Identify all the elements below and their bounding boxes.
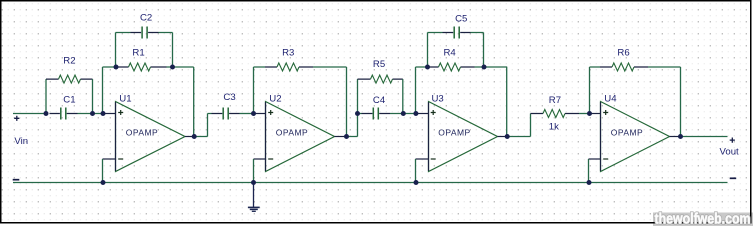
node rail U1	[101, 180, 106, 185]
wire U3 minus riser to ground rail	[415, 159, 417, 183]
svg-text:C5: C5	[455, 14, 467, 25]
wire R5/C4 right loop vertical	[402, 79, 404, 113]
svg-text:R6: R6	[617, 47, 629, 58]
wire R1 feedback top runs	[103, 67, 194, 137]
op-amp U2	[266, 102, 335, 172]
wire C5 loop right vertical	[471, 33, 484, 68]
resistor R4	[428, 63, 475, 71]
node R2 right	[90, 111, 95, 116]
resistor R7	[531, 110, 580, 118]
wire C4 segs	[358, 113, 416, 115]
terminal Vout plus	[730, 138, 735, 143]
pin - input stub U4	[589, 158, 601, 160]
wire U2 minus riser to ground rail	[253, 159, 255, 183]
node input C1 left	[44, 111, 49, 116]
pin + input stub U1	[103, 113, 116, 115]
node C4 right	[401, 111, 406, 116]
pin - input stub U1	[103, 158, 116, 160]
capacitor C5	[443, 27, 471, 39]
wire U4 output to Vout terminal	[681, 136, 728, 138]
svg-text:C2: C2	[140, 12, 152, 23]
node rail ground	[251, 180, 256, 185]
node rail U3	[414, 180, 419, 185]
svg-text:R2: R2	[63, 56, 75, 67]
pin - input stub U3	[416, 158, 429, 160]
wire C1 to node	[78, 113, 104, 115]
svg-text:R7: R7	[549, 95, 561, 106]
wire input line from Vin terminal	[13, 113, 46, 115]
pin U4 output stub	[670, 136, 681, 138]
svg-text:U4: U4	[604, 94, 617, 105]
wire ground rail	[13, 182, 728, 184]
wire C3 to U2 input node	[240, 113, 254, 115]
capacitor C2	[131, 27, 159, 39]
svg-text:OPAMP: OPAMP	[276, 127, 308, 137]
svg-text:C4: C4	[373, 95, 386, 106]
watermark band	[653, 213, 753, 227]
pin + input stub U3	[416, 113, 429, 115]
capacitor C4	[362, 108, 391, 120]
node R1 right	[170, 65, 175, 70]
pin U2 output stub	[335, 136, 347, 138]
resistor R1	[116, 63, 167, 71]
svg-text:C3: C3	[223, 92, 235, 103]
wire C5 loop left vertical	[428, 33, 443, 68]
wire U4 minus riser to ground rail	[588, 159, 590, 183]
pin + input stub U2	[254, 113, 266, 115]
node R4 right	[482, 65, 487, 70]
wire R3 feedback loop	[254, 67, 347, 137]
node U1 output	[192, 134, 197, 139]
svg-text:C1: C1	[63, 94, 75, 105]
resistor R2	[46, 75, 93, 83]
op-amp U3	[429, 102, 498, 172]
resistor R3	[265, 63, 313, 71]
svg-text:R3: R3	[282, 47, 294, 58]
wire U2 output to R5/C4	[347, 114, 358, 137]
node U1 plus	[101, 111, 106, 116]
node U4 plus	[587, 111, 592, 116]
svg-text:Vout: Vout	[720, 147, 740, 158]
node U4 output	[678, 134, 683, 139]
svg-text:OPAMP: OPAMP	[611, 127, 643, 137]
op-amp U1	[116, 102, 186, 172]
node U3 output	[505, 134, 510, 139]
node R1 left	[114, 65, 119, 70]
pin + input stub U4	[590, 113, 601, 115]
node C4 left	[355, 111, 360, 116]
terminal Vout minus	[730, 177, 737, 179]
terminal Vin minus	[13, 179, 20, 181]
svg-text:Vin: Vin	[14, 136, 28, 147]
wire R7 to U4 node	[579, 113, 590, 115]
svg-text:R1: R1	[132, 48, 144, 59]
node rail U4	[587, 180, 592, 185]
svg-text:U3: U3	[432, 94, 444, 105]
pin U3 output stub	[498, 136, 508, 138]
capacitor C1	[50, 108, 78, 120]
wire U1 minus riser to ground rail	[102, 159, 104, 183]
node U2 output	[344, 134, 349, 139]
resistor R5	[358, 75, 403, 83]
pin U1 output stub	[185, 136, 194, 138]
pin - input stub U2	[254, 158, 266, 160]
wire R4 feedback top runs	[416, 67, 508, 137]
resistor R6	[600, 63, 648, 71]
wire U3 output to R7	[507, 114, 530, 137]
wire U1 output to C3	[194, 114, 211, 137]
svg-text:U1: U1	[119, 94, 131, 105]
wire R6 feedback loop	[590, 67, 681, 137]
svg-text:OPAMP: OPAMP	[438, 127, 470, 137]
svg-text:OPAMP: OPAMP	[126, 127, 158, 137]
op-amp U4	[601, 102, 670, 172]
wire R5/C4 left loop vertical	[357, 79, 359, 113]
node U2 plus	[251, 111, 256, 116]
wire R2/C1 left loop vertical	[45, 79, 47, 113]
wire C2 loop right vertical	[159, 33, 173, 68]
svg-text:R5: R5	[373, 59, 385, 70]
svg-text:R4: R4	[444, 47, 457, 58]
svg-text:thewolfweb.com: thewolfweb.com	[655, 211, 751, 226]
wire riser U3 node to R4 line	[415, 67, 417, 114]
wire riser node to R1 line	[102, 67, 104, 114]
ground	[248, 183, 260, 212]
svg-text:U2: U2	[269, 94, 281, 105]
node R4 left	[425, 65, 430, 70]
svg-text:1k: 1k	[549, 121, 559, 132]
wire R2/C1 right loop vertical	[92, 79, 94, 113]
capacitor C3	[212, 108, 240, 120]
watermark text	[655, 211, 751, 228]
node U3 plus	[413, 111, 418, 116]
terminal Vin plus	[14, 116, 19, 121]
wire C2 loop left vertical	[116, 33, 131, 68]
